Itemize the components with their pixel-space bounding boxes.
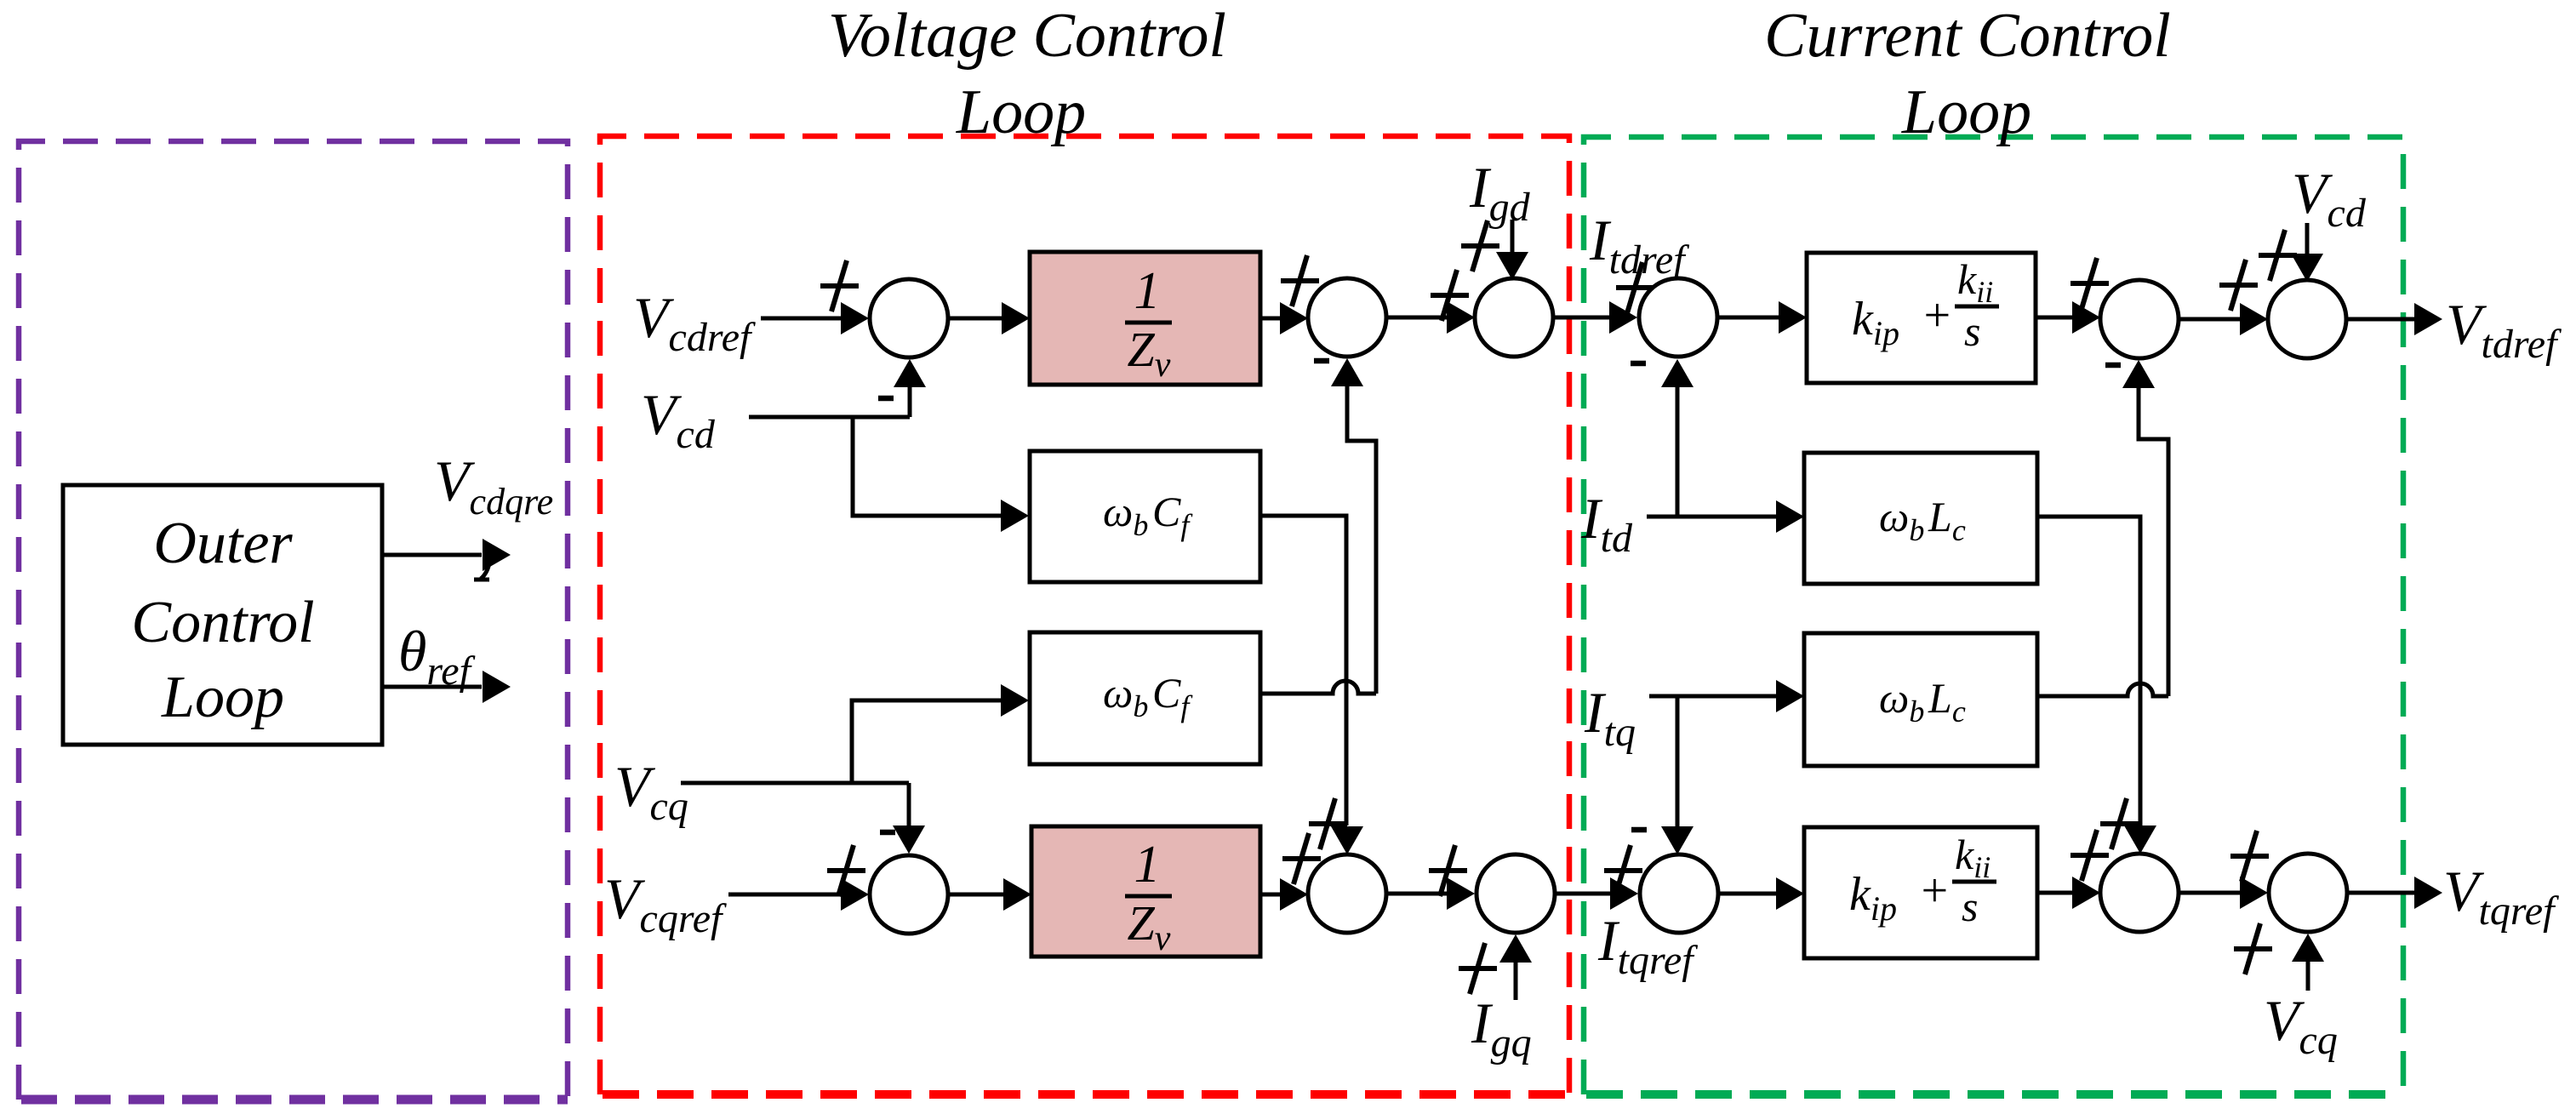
summing junction S6 xyxy=(1308,854,1386,933)
wire: Vcq feedforward into S12 bottom xyxy=(2292,934,2324,991)
wire: wbLc lower output up to S9 (with hop over crossing wire) xyxy=(2037,360,2168,696)
plus sign: S7 Igq input xyxy=(1459,943,1497,994)
wire: Vcq horizontal run xyxy=(681,781,909,786)
svg-text:Loop: Loop xyxy=(161,665,284,730)
block: 1/Zv (q-axis) transfer function xyxy=(1031,826,1260,958)
svg-text:1: 1 xyxy=(1134,836,1161,894)
title: Current Control Loop xyxy=(1764,1,2171,147)
wire: S5 to 1/Zv block (q-axis) xyxy=(948,878,1031,911)
svg-text:Itq: Itq xyxy=(1584,680,1636,755)
wire: S3 to summing junction S4 (Itdref) xyxy=(1553,301,1637,334)
minus sign: S4 feedback input xyxy=(1631,361,1646,367)
wire: S2 to summing junction S3 xyxy=(1386,301,1475,334)
summing junction S8 xyxy=(1640,854,1718,933)
summing junction S12 xyxy=(2269,854,2347,932)
dashed boundary box: Outer Control Loop region (purple) xyxy=(19,141,568,1100)
minus sign: S2 feedback input xyxy=(1314,358,1329,364)
plus sign: S7 left input xyxy=(1429,845,1467,896)
wire: Itq branch down into S8 with arrow xyxy=(1661,696,1694,854)
dashed boundary box: Voltage Control Loop region (red) xyxy=(600,136,1569,1094)
plus sign: S12 Vcq input xyxy=(2234,923,2272,974)
svg-text:1: 1 xyxy=(1134,262,1161,320)
svg-text:Igd: Igd xyxy=(1469,155,1531,230)
summing junction S2 xyxy=(1308,278,1386,357)
svg-text:Loop: Loop xyxy=(1901,77,2031,147)
wire: wbLc upper output down to S11 xyxy=(2037,517,2156,854)
wire: wbCf upper output down to S6 xyxy=(1260,516,1363,854)
block: kip+kii/s PI controller (d-axis) xyxy=(1807,253,2036,383)
node thetaref label xyxy=(398,619,476,694)
plus sign: S10 Vcd input xyxy=(2259,230,2297,281)
summing junction S3 (Igd adder) xyxy=(1475,278,1553,357)
node Itd label xyxy=(1580,486,1633,561)
plus sign: S4 Itdref input xyxy=(1616,262,1654,313)
wire: S4 to kip+kii/s block (d-axis) xyxy=(1717,301,1807,334)
node Igq label xyxy=(1471,991,1532,1065)
plus sign: S11 top input xyxy=(2100,798,2139,849)
node Vcdqref label xyxy=(434,448,553,523)
wire: Vcd feedforward into S10 top xyxy=(2291,223,2323,282)
wire: S12 output to Vtqref xyxy=(2347,877,2442,909)
minus sign: S9 decoupling input xyxy=(2105,363,2121,368)
wire: S7 to summing junction S8 (Itqref) xyxy=(1555,877,1638,910)
wire: PI controller to summing junction S9 xyxy=(2036,301,2100,334)
wire: Vcd feedback horizontal run xyxy=(749,415,910,420)
wire: Igd disturbance into S3 top xyxy=(1496,220,1528,280)
minus sign: S1 Vcd input xyxy=(878,396,894,402)
plus sign: S5 Vcqref input xyxy=(827,845,865,896)
svg-text:+: + xyxy=(1918,865,1951,917)
wire: S11 to summing junction S12 xyxy=(2179,877,2268,909)
plus sign: S10 left input xyxy=(2219,260,2258,311)
wire: Itd horizontal into wbLc (upper) xyxy=(1647,500,1804,533)
svg-text:s: s xyxy=(1964,307,1980,355)
wire: Vcd up into S1 with arrow xyxy=(894,359,926,417)
minus sign: S8 top input xyxy=(1631,827,1647,833)
summing junction S7 (Igq adder) xyxy=(1476,854,1555,933)
svg-text:Vcd: Vcd xyxy=(2292,161,2367,236)
wire: S8 to kip+kii/s block (q-axis) xyxy=(1718,877,1804,910)
plus sign: S3 left input xyxy=(1431,270,1469,321)
svg-text:Vcq: Vcq xyxy=(2264,988,2338,1063)
plus sign: S2 input from 1/Zv xyxy=(1281,255,1319,306)
block: Outer Control Loop xyxy=(63,485,382,745)
title: Voltage Control Loop xyxy=(828,1,1226,147)
summing junction S4 xyxy=(1639,278,1717,357)
node Vtdref label xyxy=(2446,292,2562,367)
wire: Vcdref into summing junction S1 xyxy=(761,302,869,334)
svg-text:Vcqref: Vcqref xyxy=(604,866,727,941)
svg-text:θref: θref xyxy=(398,619,476,694)
block: wbLc decoupling gain (upper) xyxy=(1804,453,2037,584)
plus sign: S11 left input xyxy=(2071,830,2109,881)
block: kip+kii/s PI controller (q-axis) xyxy=(1804,827,2037,958)
svg-text:Outer: Outer xyxy=(153,511,293,576)
wire: 1/Zv q to summing junction S6 xyxy=(1260,878,1308,911)
plus sign: S6 left input xyxy=(1282,833,1321,884)
svg-text:Vcq: Vcq xyxy=(614,754,688,829)
summing junction S5 xyxy=(870,855,948,934)
plus sign: S8 left input xyxy=(1604,845,1642,896)
svg-text:Vcdref: Vcdref xyxy=(633,285,756,360)
node Vcd feedforward label (top right) xyxy=(2292,161,2367,236)
wire: PI controller q to summing junction S11 xyxy=(2037,877,2100,909)
summing junction S1 xyxy=(870,279,948,357)
wire: Vcdqref output arrow from Outer Control Loop xyxy=(382,539,511,580)
svg-text:Vcd: Vcd xyxy=(641,382,716,457)
plus sign: S3 Igd input xyxy=(1461,220,1499,271)
node Vtqref label xyxy=(2443,859,2559,934)
plus sign: S6 top input xyxy=(1309,798,1347,849)
svg-text:Control: Control xyxy=(131,590,314,655)
node Vcq label (left) xyxy=(614,754,688,829)
plus sign: S12 left input xyxy=(2230,831,2269,882)
summing junction S9 xyxy=(2100,280,2179,358)
minus sign: S5 Vcq input xyxy=(880,830,895,836)
node Itqref label xyxy=(1597,908,1698,983)
wire: Vcqref into summing junction S5 xyxy=(728,878,869,911)
block: 1/Zv (d-axis) transfer function xyxy=(1030,252,1260,385)
wire: Igq disturbance into S7 bottom xyxy=(1499,934,1532,1000)
svg-text:Vtqref: Vtqref xyxy=(2443,859,2559,934)
wire: wbCf lower output up to S2 (with hop over crossing wire) xyxy=(1260,358,1376,694)
block: wbCf cross-coupling gain (lower) xyxy=(1030,632,1260,764)
wire: Vcq down into S5 with arrow xyxy=(893,783,925,854)
plus sign: S1 Vcdref input xyxy=(820,260,859,311)
node Vcq feedforward label (bottom right) xyxy=(2264,988,2338,1063)
node Itq label xyxy=(1584,680,1636,755)
svg-text:s: s xyxy=(1962,883,1978,930)
wire: Itd branch up into S4 with arrow xyxy=(1661,359,1694,517)
block: wbLc decoupling gain (lower) xyxy=(1804,633,2037,766)
wire: S6 to summing junction S7 xyxy=(1386,877,1475,910)
svg-text:Igq: Igq xyxy=(1471,991,1532,1065)
wire: Vcd branch down to wbCf block (d-axis) xyxy=(853,417,1029,532)
dashed boundary box: Current Control Loop region (green) xyxy=(1584,137,2403,1094)
wire: S9 to summing junction S10 xyxy=(2179,303,2268,335)
svg-text:Voltage Control: Voltage Control xyxy=(828,1,1226,71)
wire: thetaref output arrow from Outer Control Loop xyxy=(382,671,511,703)
svg-text:Vcdqre: Vcdqre xyxy=(434,448,553,523)
svg-text:Current Control: Current Control xyxy=(1764,1,2171,71)
svg-text:Itd: Itd xyxy=(1580,486,1633,561)
svg-text:Loop: Loop xyxy=(956,77,1086,147)
node Vcqref label xyxy=(604,866,727,941)
wire: S10 output to Vtdref xyxy=(2346,303,2442,335)
wire: 1/Zv to summing junction S2 xyxy=(1260,302,1308,334)
node Vcdref label xyxy=(633,285,756,360)
summing junction S11 xyxy=(2100,854,2179,932)
svg-text:+: + xyxy=(1921,289,1953,342)
node Itdref label xyxy=(1589,208,1689,283)
summing junction S10 xyxy=(2268,280,2346,358)
block: wbCf cross-coupling gain (upper) xyxy=(1030,451,1260,582)
wire: Itq horizontal into wbLc (lower) xyxy=(1649,680,1804,712)
node Igd label xyxy=(1469,155,1531,230)
wire: S1 to 1/Zv block xyxy=(948,302,1030,334)
plus sign: S9 input from PI xyxy=(2071,258,2109,309)
node Vcd feedback label (left) xyxy=(641,382,716,457)
wire: Vcq branch up to wbCf block (lower) xyxy=(852,684,1029,783)
svg-text:Vtdref: Vtdref xyxy=(2446,292,2562,367)
